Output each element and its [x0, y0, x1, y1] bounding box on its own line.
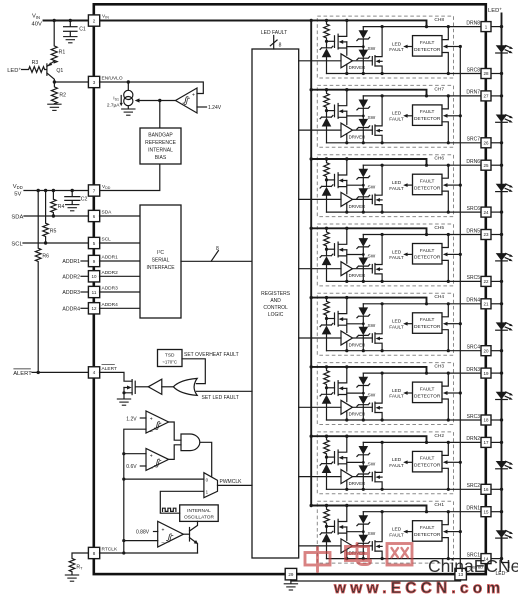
svg-text:SET LED FAULT: SET LED FAULT: [202, 395, 239, 401]
wire: comparator output to IS1 control: [139, 100, 176, 102]
resistor RT: [65, 553, 89, 581]
svg-text:R2: R2: [59, 92, 66, 98]
wire: ADDR1 stub: [81, 260, 88, 262]
svg-text:15: 15: [483, 509, 489, 514]
capacitor C2: [65, 191, 88, 211]
wire: comparator output to bandgap: [159, 101, 161, 129]
wire: LED string bottom to LED-: [502, 559, 509, 568]
IC package outline: [94, 4, 486, 574]
svg-text:+: +: [162, 527, 165, 533]
svg-text:EN/UVLO: EN/UVLO: [102, 76, 123, 82]
registers and control logic block: [252, 49, 299, 558]
svg-text:R1: R1: [59, 49, 66, 55]
wire: external LED string: [501, 14, 503, 559]
wire: SET LED FAULT from registers to OR gate: [196, 390, 252, 392]
svg-text:ADDR2: ADDR2: [62, 274, 80, 280]
svg-text:SDA: SDA: [11, 214, 23, 220]
svg-text:ADDR1: ADDR1: [62, 259, 80, 265]
svg-text:R5: R5: [50, 229, 57, 235]
wire: buffer to FET gate: [136, 386, 148, 388]
comparator 1.2V upper: [126, 411, 168, 435]
svg-text:16: 16: [483, 487, 489, 492]
channel CH2 cell: [299, 432, 514, 494]
ground at exposed pad: [290, 580, 292, 584]
svg-text:BANDGAP: BANDGAP: [148, 133, 173, 139]
svg-text:SRC8: SRC8: [467, 67, 481, 73]
svg-text:ALERT: ALERT: [102, 366, 117, 372]
current source IS1: [107, 82, 136, 115]
svg-text:SRC7: SRC7: [467, 137, 481, 143]
svg-text:ADDR1: ADDR1: [102, 255, 119, 261]
svg-text:R6: R6: [42, 254, 49, 260]
wire: ADDR1 into I2C block: [100, 260, 141, 262]
svg-text:+: +: [150, 416, 153, 422]
svg-text:SRC6: SRC6: [467, 206, 481, 212]
label 1.24V reference: [197, 106, 207, 108]
svg-text:R4: R4: [58, 204, 65, 210]
svg-text:SRC4: SRC4: [467, 345, 481, 351]
wire: TSD to OR gate input: [182, 359, 205, 384]
svg-text:SRC2: SRC2: [467, 483, 481, 489]
svg-text:ADDR3: ADDR3: [102, 286, 119, 292]
I2C serial interface block: [140, 205, 181, 318]
svg-text:CH4: CH4: [434, 294, 444, 300]
pin 13 GND: [455, 568, 467, 580]
svg-text:2.7µA: 2.7µA: [107, 103, 120, 109]
svg-text:~170°C: ~170°C: [162, 360, 177, 365]
svg-text:Q1: Q1: [56, 68, 63, 74]
pin 2 VIN: [88, 15, 99, 26]
pin 9 ADDR1: [88, 255, 99, 266]
node: EN/UVLO divider junction: [54, 81, 88, 83]
channel CH3 cell: [299, 363, 514, 425]
svg-text:R3: R3: [32, 60, 39, 66]
OR gate (mirrored): [173, 378, 197, 395]
transistor Q osc sync: [183, 521, 198, 553]
svg-text:REFERENCE: REFERENCE: [145, 140, 177, 146]
svg-text:TSD: TSD: [165, 353, 175, 359]
svg-text:–: –: [150, 429, 153, 435]
svg-text:+: +: [192, 92, 195, 98]
svg-text:1.24V: 1.24V: [208, 105, 222, 111]
resistor R1: [51, 21, 65, 63]
comparator U1 EN/UVLO (points left): [176, 88, 198, 113]
channel CH7 cell: [299, 85, 514, 147]
svg-text:CH1: CH1: [434, 502, 444, 508]
svg-text:CH8: CH8: [434, 17, 444, 23]
svg-text:1.2V: 1.2V: [126, 416, 137, 422]
wire: RTCLK row: [100, 552, 198, 554]
channel CH8 cell: [299, 16, 514, 78]
pin 3 EN/UVLO: [88, 76, 99, 87]
wire: OR output to alert buffer: [162, 386, 174, 388]
wire: PWMCLK output to registers: [218, 484, 253, 486]
wire: VDD row: [24, 190, 88, 192]
wire: ADDR3 into I2C block: [100, 291, 141, 293]
wire: VIN feed bus down left side of channels: [310, 21, 312, 506]
internal oscillator block: [180, 505, 219, 522]
thermal shutdown block TSD: [158, 350, 183, 367]
wire: fault sense bus to GND pin 13: [459, 47, 461, 569]
svg-text:17: 17: [483, 440, 489, 445]
svg-text:DRN6: DRN6: [466, 159, 480, 165]
svg-text:VIN: VIN: [32, 14, 40, 20]
pin 7 VDD: [88, 185, 99, 196]
wire: pin 13 to ground: [291, 580, 461, 581]
ALERT open-drain NMOS: [100, 372, 136, 405]
svg-text:+: +: [150, 453, 153, 459]
svg-text:DRN3: DRN3: [466, 367, 480, 373]
svg-text:OSCILLATOR: OSCILLATOR: [184, 515, 214, 521]
svg-text:28: 28: [483, 71, 489, 76]
pin 6 SDA: [88, 210, 99, 221]
svg-text:CH7: CH7: [434, 86, 444, 92]
pin 29 GND exposed pad: [285, 568, 297, 580]
svg-text:8: 8: [216, 246, 219, 252]
capacitor C1: [63, 21, 86, 43]
svg-text:23: 23: [483, 232, 489, 237]
svg-text:5V: 5V: [14, 192, 21, 198]
svg-text:DRN5: DRN5: [466, 228, 480, 234]
svg-text:22: 22: [483, 279, 489, 284]
svg-text:–: –: [150, 465, 153, 471]
pin 4 ALERT: [88, 367, 99, 378]
svg-text:INTERNAL: INTERNAL: [148, 147, 173, 153]
svg-text:DRN4: DRN4: [466, 298, 480, 304]
svg-text:SET OVERHEAT FAULT: SET OVERHEAT FAULT: [184, 352, 239, 358]
svg-text:CH5: CH5: [434, 225, 444, 231]
PWMCLK mux: [204, 473, 218, 498]
svg-text:C1: C1: [79, 26, 86, 32]
wire: I2C 8-bit bus to registers: [181, 260, 252, 262]
svg-text:CH3: CH3: [434, 364, 444, 370]
svg-text:25: 25: [483, 163, 489, 168]
wire: ADDR3 stub: [81, 291, 88, 293]
LED FAULT bus into registers: [261, 30, 287, 49]
channel CH6 cell: [299, 155, 514, 217]
svg-text:11: 11: [92, 290, 97, 295]
wire: VDD to bandgap: [100, 164, 160, 191]
resistor R3: [22, 60, 47, 73]
svg-text:BIAS: BIAS: [155, 155, 167, 161]
svg-text:DRN8: DRN8: [466, 20, 480, 26]
svg-text:8: 8: [279, 43, 282, 49]
svg-text:INTERFACE: INTERFACE: [146, 265, 175, 271]
resistor R4: [51, 191, 65, 217]
svg-text:18: 18: [483, 418, 489, 423]
svg-text:10: 10: [91, 274, 97, 279]
resistor R5: [43, 191, 57, 244]
svg-text:ALERT: ALERT: [13, 371, 32, 377]
svg-text:AND: AND: [270, 298, 281, 304]
wire: RTCLK sense vertical: [124, 429, 146, 553]
resistor R2: [47, 82, 66, 110]
wire: SCL into I2C block: [100, 242, 141, 244]
svg-text:ADDR3: ADDR3: [62, 290, 80, 296]
clock waveform glyph: [163, 508, 176, 511]
wire: mux input 0 from RTCLK: [124, 478, 204, 480]
resistor R6: [35, 191, 49, 373]
svg-text:VDD: VDD: [13, 184, 23, 190]
comparator 0.6V lower: [122, 448, 168, 471]
channel CH5 cell: [299, 224, 514, 286]
svg-text:INTERNAL: INTERNAL: [187, 508, 211, 514]
wire: oscillator output to mux input 1: [160, 491, 204, 513]
svg-text:0.6V: 0.6V: [126, 464, 137, 470]
svg-text:SRC5: SRC5: [467, 275, 481, 281]
pin 11 ADDR3: [88, 286, 99, 297]
svg-text:RTCLK: RTCLK: [102, 547, 118, 553]
transistor Q1 PNP: [47, 61, 64, 82]
svg-text:26: 26: [483, 141, 489, 146]
svg-text:REGISTERS: REGISTERS: [261, 291, 291, 297]
svg-text:SDA: SDA: [102, 210, 113, 216]
alert buffer (points left): [148, 379, 162, 394]
svg-text:DRN7: DRN7: [466, 90, 480, 96]
svg-text:29: 29: [288, 572, 294, 577]
svg-text:CONTROL: CONTROL: [263, 305, 288, 311]
comparator 0.88V: [122, 521, 183, 547]
svg-text:ADDR4: ADDR4: [102, 302, 119, 308]
svg-text:ADDR2: ADDR2: [102, 270, 119, 276]
wire: ALERT row: [32, 371, 88, 373]
svg-text:SCL: SCL: [11, 241, 23, 247]
svg-text:CH6: CH6: [434, 156, 444, 162]
wire: EN/UVLO row to comparator: [100, 82, 204, 94]
svg-text:DRN2: DRN2: [466, 436, 480, 442]
svg-text:SERIAL: SERIAL: [152, 258, 170, 264]
channel CH4 cell: [299, 293, 514, 355]
wire: VIN rail from pin 2 across top: [44, 20, 312, 22]
svg-text:24: 24: [483, 210, 489, 215]
svg-text:ADDR4: ADDR4: [62, 306, 80, 312]
svg-text:C2: C2: [81, 197, 88, 203]
svg-text:SRC3: SRC3: [467, 414, 481, 420]
wire: SDA into I2C block: [100, 215, 141, 217]
svg-text:21: 21: [483, 302, 489, 307]
svg-text:–: –: [162, 539, 165, 545]
svg-text:LOGIC: LOGIC: [268, 312, 284, 318]
wire: SCL row: [23, 242, 88, 244]
wire: ADDR2 into I2C block: [100, 275, 141, 277]
VDD junction dots: [37, 189, 74, 374]
bandgap reference block: [140, 128, 181, 164]
pin 12 ADDR4: [88, 303, 99, 314]
AND gate: [169, 422, 212, 476]
pin 5 SCL: [88, 237, 99, 248]
svg-text:PWMCLK: PWMCLK: [220, 479, 243, 485]
wire: SDA row: [24, 215, 88, 217]
channel CH1 cell: [299, 501, 514, 563]
svg-text:DRN1: DRN1: [466, 506, 480, 512]
pin 10 ADDR2: [88, 271, 99, 282]
pin 8 RTCLK: [88, 547, 99, 558]
svg-text:CH2: CH2: [434, 433, 444, 439]
wire: ADDR2 stub: [81, 275, 88, 277]
wire: ADDR4 stub: [81, 307, 88, 309]
svg-text:SCL: SCL: [102, 237, 112, 243]
svg-text:40V: 40V: [32, 22, 42, 28]
svg-text:20: 20: [483, 348, 489, 353]
watermark chinese characters: [305, 544, 412, 572]
svg-text:0.88V: 0.88V: [136, 530, 150, 536]
svg-text:ChinaECNet: ChinaECNet: [428, 556, 518, 576]
svg-text:I2C: I2C: [157, 249, 164, 256]
wire: ADDR4 into I2C block: [100, 307, 141, 309]
svg-text:27: 27: [483, 94, 489, 99]
svg-text:19: 19: [483, 371, 489, 376]
svg-text:www.ECCN.com: www.ECCN.com: [333, 580, 504, 597]
svg-text:12: 12: [91, 306, 97, 311]
